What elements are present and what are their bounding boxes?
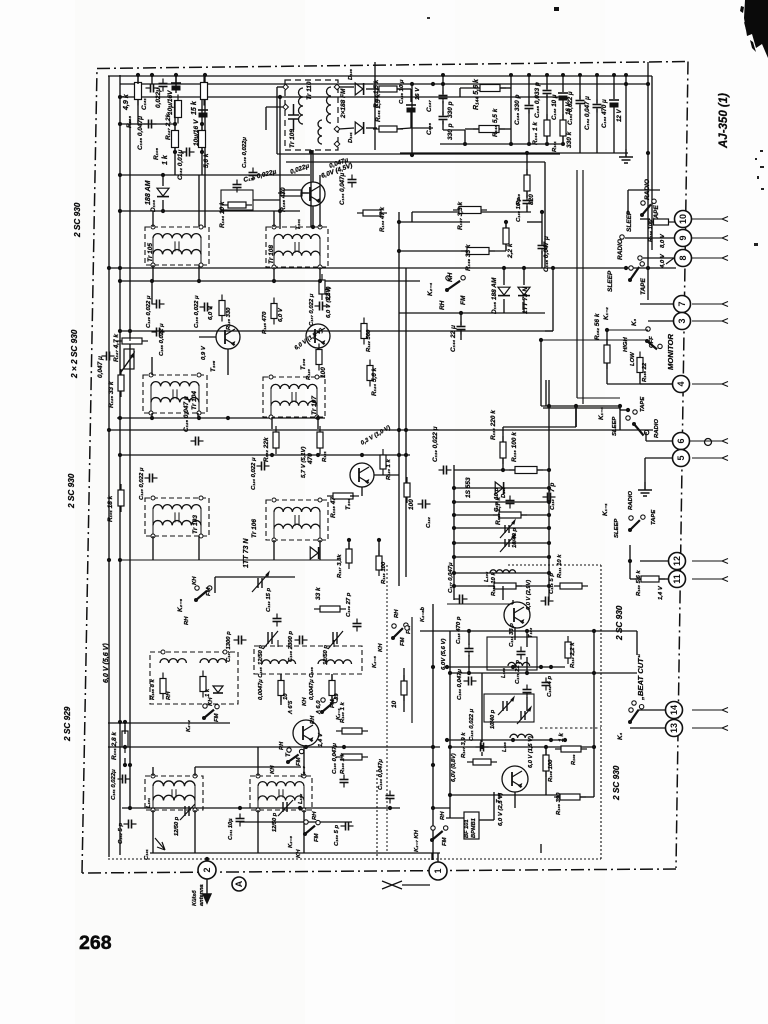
- wire: [648, 320, 673, 322]
- connector pin 6: [673, 433, 690, 450]
- wire: [443, 129, 465, 131]
- wire: [690, 440, 708, 442]
- wire: [124, 722, 126, 734]
- wire: [279, 97, 281, 229]
- junction: [509, 142, 513, 146]
- resistor R?33k: [314, 606, 346, 612]
- junction: [452, 555, 456, 559]
- resistor R124: [367, 360, 373, 387]
- wire: [510, 75, 512, 144]
- svg-text:R₁₄₉ 33 k: R₁₄₉ 33 k: [465, 244, 472, 271]
- junction: [226, 416, 230, 420]
- svg-text:C₁₄₆ 10 μ: C₁₄₆ 10 μ: [399, 79, 405, 104]
- wire: [575, 406, 577, 427]
- wire: [454, 514, 549, 516]
- svg-text:C₁₃₈ 330 p: C₁₃₈ 330 p: [514, 94, 521, 125]
- junction: [441, 82, 445, 86]
- capacitor C137: [315, 302, 328, 311]
- wire: [152, 265, 154, 281]
- resistor R112: [488, 583, 522, 589]
- svg-text:C₁₄₉ 10 p: C₁₄₉ 10 p: [516, 197, 522, 222]
- svg-text:R₁₁₁ 10 k: R₁₁₁ 10 k: [557, 554, 563, 578]
- resistor R103a: [336, 728, 368, 734]
- svg-text:13: 13: [669, 723, 679, 733]
- wire: [540, 340, 542, 380]
- svg-text:10: 10: [678, 214, 688, 224]
- capacitor C104: [386, 791, 395, 804]
- wire: [120, 559, 340, 561]
- svg-text:C₁₃₄ 0,047μ: C₁₃₄ 0,047μ: [339, 173, 346, 205]
- wire: [442, 101, 444, 115]
- wire: [410, 112, 412, 128]
- terminal tick: [722, 726, 728, 731]
- switch K2-3: [286, 748, 304, 764]
- wire: [420, 630, 637, 632]
- svg-text:2 SC 930: 2 SC 930: [73, 202, 82, 238]
- junction: [448, 745, 452, 749]
- connector pin 11: [669, 571, 686, 588]
- svg-text:0,022μ: 0,022μ: [155, 88, 162, 108]
- capacitor C162: [593, 100, 602, 113]
- wire: [257, 747, 259, 776]
- wire: [310, 150, 312, 227]
- wire: [137, 99, 139, 124]
- svg-text:L₁₀₁: L₁₀₁: [146, 798, 152, 808]
- junction: [646, 82, 650, 86]
- wire: [277, 86, 283, 88]
- resistor R113: [493, 512, 527, 518]
- svg-text:R₁₅₅ 8 k: R₁₅₅ 8 k: [150, 678, 156, 700]
- junction: [173, 150, 177, 154]
- junction: [397, 453, 401, 457]
- wire: [502, 458, 504, 470]
- svg-text:C₁₀₃ 0,047μ: C₁₀₃ 0,047μ: [332, 743, 338, 774]
- wire: [692, 237, 722, 239]
- junction: [452, 513, 456, 517]
- resistor R155: [160, 673, 166, 700]
- svg-text:11: 11: [672, 574, 682, 584]
- svg-text:TAPE: TAPE: [640, 278, 647, 295]
- svg-text:7: 7: [677, 301, 687, 306]
- wire: [647, 62, 649, 300]
- wire: [317, 348, 319, 350]
- svg-text:T₁₀₁: T₁₀₁: [295, 219, 302, 230]
- svg-text:188 AM: 188 AM: [144, 179, 152, 205]
- border frame top: [97, 62, 688, 69]
- terminal tick: [722, 217, 728, 222]
- junction: [431, 763, 435, 767]
- svg-text:5: 5: [676, 455, 686, 460]
- wire: [526, 697, 528, 711]
- svg-text:330 p: 330 p: [447, 101, 454, 118]
- switch K2-5: [391, 623, 408, 640]
- pin Tr110 d: [334, 126, 340, 132]
- wire: [437, 853, 439, 862]
- resistor Rten: [278, 675, 284, 702]
- svg-text:R₁₂₂ 560: R₁₂₂ 560: [366, 329, 372, 352]
- wire: [195, 766, 301, 768]
- junction: [624, 82, 628, 86]
- pcb outline bottom: [108, 858, 601, 860]
- junction: [161, 173, 165, 177]
- junction: [118, 173, 122, 177]
- wire: [399, 250, 467, 252]
- svg-text:12/50 p: 12/50 p: [258, 645, 264, 665]
- resistor R101b: [118, 484, 124, 512]
- wire: [108, 75, 652, 77]
- svg-text:268: 268: [79, 932, 112, 954]
- svg-text:K₂₋₇ KH: K₂₋₇ KH: [414, 829, 420, 852]
- svg-text:0,0047μ C₁₀₆: 0,0047μ C₁₀₆: [309, 666, 315, 700]
- svg-text:FM: FM: [214, 712, 220, 722]
- svg-text:Tr 107: Tr 107: [311, 396, 318, 415]
- capacitor C118: [541, 597, 554, 606]
- wire: [447, 739, 565, 741]
- wire: [361, 487, 363, 496]
- wire: [199, 336, 216, 338]
- resistor R122: [361, 318, 367, 345]
- junction: [197, 416, 201, 420]
- capacitor C136c: [439, 112, 448, 125]
- wire: [286, 161, 545, 163]
- connector pin 13: [666, 720, 683, 737]
- junction: [547, 486, 551, 490]
- svg-text:C₁₄₈ 10 μ: C₁₄₈ 10 μ: [551, 94, 558, 120]
- junction: [646, 151, 650, 155]
- wire: [405, 268, 407, 577]
- wire: [108, 746, 440, 748]
- svg-text:antenna: antenna: [199, 884, 205, 906]
- svg-text:R₁₁₀ 2,2 k: R₁₁₀ 2,2 k: [570, 642, 576, 668]
- capacitor C108: [295, 636, 308, 645]
- junction: [467, 671, 471, 675]
- wire: [528, 75, 530, 104]
- resistor R39: [329, 675, 335, 702]
- svg-text:10/40 p: 10/40 p: [490, 709, 496, 729]
- diode D102: [495, 482, 503, 494]
- capacitor C115: [465, 644, 474, 657]
- wire: [468, 655, 470, 673]
- svg-text:Λ 6,0: Λ 6,0: [316, 700, 322, 715]
- junction: [200, 150, 204, 154]
- wire: [403, 695, 405, 712]
- pcb outline segment: [508, 564, 601, 566]
- capacitor C145: [538, 241, 547, 254]
- svg-text:12: 12: [672, 556, 682, 566]
- wire: [454, 501, 549, 503]
- wire: [333, 640, 335, 647]
- junction: [595, 73, 599, 77]
- junction: [592, 629, 596, 633]
- switch K2-7: [430, 826, 448, 842]
- wire: [460, 87, 480, 89]
- terminal tick: [722, 456, 728, 461]
- svg-text:C₁₇₇ 0,047μ: C₁₇₇ 0,047μ: [448, 562, 454, 593]
- svg-text:C₁₃₇: C₁₃₇: [426, 100, 433, 112]
- junction: [563, 738, 567, 742]
- svg-text:R₁₁₇ 3,3k: R₁₁₇ 3,3k: [337, 554, 343, 578]
- wire: [468, 631, 470, 645]
- svg-text:8: 8: [678, 255, 688, 260]
- wire: [319, 267, 321, 281]
- wire: [198, 536, 200, 560]
- wire: [640, 218, 650, 220]
- resistor R128: [219, 295, 225, 322]
- resistor R151: [560, 114, 566, 142]
- wire: [151, 281, 153, 304]
- junction: [197, 279, 201, 283]
- resistor R115: [500, 436, 506, 464]
- svg-text:T₁₀₆: T₁₀₆: [300, 358, 307, 370]
- trimmer capacitor C1: [500, 520, 515, 538]
- transformer L102: [250, 774, 312, 812]
- wire: [339, 128, 354, 129]
- terminal tick: [722, 439, 728, 444]
- wire: [122, 330, 553, 332]
- resistor R147: [453, 207, 487, 214]
- wire: [152, 810, 154, 853]
- contact circle sleep: [620, 235, 624, 239]
- svg-text:T₁₀₅: T₁₀₅: [210, 360, 217, 372]
- svg-text:R₁₃₂ 22k: R₁₃₂ 22k: [263, 437, 270, 462]
- connector pin 10: [675, 211, 692, 228]
- svg-text:FM: FM: [442, 836, 448, 846]
- junction: [452, 500, 456, 504]
- svg-text:R₁₁₆ 100 k: R₁₁₆ 100 k: [511, 432, 518, 462]
- svg-text:C₁₁₁ 33 p: C₁₁₁ 33 p: [509, 623, 515, 647]
- svg-text:6,0 V (2,5 V): 6,0 V (2,5 V): [498, 793, 504, 826]
- diode D104: [518, 287, 530, 295]
- transistor T102: [502, 766, 528, 792]
- svg-text:R₁₁₂ 10 k: R₁₁₂ 10 k: [491, 572, 497, 596]
- capacitor Tr110 internal: [288, 104, 299, 130]
- wire: [447, 666, 565, 668]
- wire: [277, 153, 560, 155]
- wire: [411, 617, 413, 723]
- svg-text:FM: FM: [330, 698, 336, 708]
- wire: [582, 170, 584, 404]
- wire: [500, 87, 511, 89]
- transformer Tr110 shield box: [285, 80, 338, 150]
- junction: [509, 73, 513, 77]
- svg-text:MONITOR: MONITOR: [666, 334, 675, 370]
- wire: [596, 75, 598, 103]
- wire: [548, 406, 550, 600]
- junction: [107, 428, 111, 432]
- switch K4: [628, 705, 644, 725]
- wire: [503, 299, 505, 313]
- wire: [502, 427, 504, 442]
- wire: [446, 817, 464, 819]
- wire: [198, 265, 200, 281]
- resistor R140: [201, 77, 208, 106]
- junction: [467, 629, 471, 633]
- junction: [618, 404, 622, 408]
- svg-text:K₂₋₆: K₂₋₆: [177, 598, 184, 612]
- wire: [273, 211, 275, 227]
- svg-text:LOW: LOW: [630, 352, 636, 366]
- capacitor C129: [152, 300, 165, 309]
- junction: [448, 793, 452, 797]
- wire: [640, 383, 672, 385]
- junction: [318, 279, 322, 283]
- svg-text:6,0V (0,8V): 6,0V (0,8V): [451, 753, 457, 782]
- wire: [137, 75, 139, 84]
- svg-text:C₁₅₂ 5 p: C₁₅₂ 5 p: [118, 823, 124, 844]
- wire: [120, 96, 560, 98]
- junction: [545, 142, 549, 146]
- junction: [547, 500, 551, 504]
- wire: [129, 331, 131, 341]
- capacitor C107: [234, 636, 247, 645]
- wire: [646, 440, 672, 442]
- svg-text:K₁₋₁: K₁₋₁: [602, 503, 609, 516]
- svg-text:C₁₂₂: C₁₂₂: [426, 516, 432, 528]
- switch K2-8: [303, 820, 320, 836]
- resistor R111: [554, 583, 588, 589]
- junction: [525, 151, 529, 155]
- arrow antenna: [203, 879, 211, 903]
- wire: [312, 150, 314, 182]
- junction: [128, 763, 132, 767]
- svg-text:SLEEP: SLEEP: [614, 519, 620, 538]
- svg-text:L₁₀₅: L₁₀₅: [484, 571, 490, 582]
- junction: [624, 266, 628, 270]
- wire: [692, 578, 722, 580]
- junction: [522, 266, 526, 270]
- wire: [215, 576, 295, 578]
- junction: [278, 209, 282, 213]
- pin FM box b: [223, 650, 227, 654]
- junction: [272, 279, 276, 283]
- junction: [592, 671, 596, 675]
- svg-text:R₁₂₅ 470: R₁₂₅ 470: [262, 311, 268, 334]
- wire: [541, 251, 543, 268]
- wire: [545, 771, 547, 795]
- svg-text:R₁₀₉: R₁₀₉: [571, 754, 577, 765]
- junction: [561, 142, 565, 146]
- wire: [487, 637, 537, 670]
- diode D106: [355, 83, 363, 95]
- terminal tick: [722, 319, 728, 324]
- svg-text:100: 100: [320, 367, 327, 378]
- junction: [107, 558, 111, 562]
- switch K1-2a: [628, 262, 644, 282]
- resistor R132: [273, 426, 279, 454]
- wire: [526, 191, 528, 198]
- capacitor C?: [159, 79, 168, 92]
- wire: [398, 577, 400, 586]
- wire: [514, 627, 516, 640]
- wire: [108, 722, 230, 724]
- wire: [613, 106, 615, 153]
- svg-text:1 k: 1 k: [205, 688, 211, 697]
- junction: [200, 122, 204, 126]
- wire: [543, 407, 620, 409]
- svg-text:R₁₁₈ 47: R₁₁₈ 47: [330, 497, 337, 518]
- svg-text:C₁₂₉ 0,022 μ: C₁₂₉ 0,022 μ: [146, 295, 152, 328]
- potentiometer P1: [121, 349, 134, 372]
- junction: [624, 73, 628, 77]
- wire: [397, 88, 411, 90]
- junction: [540, 210, 544, 214]
- junction: [561, 73, 565, 77]
- wire: [201, 147, 203, 175]
- svg-text:C₁₁₉ 0,022 μ: C₁₁₉ 0,022 μ: [432, 426, 439, 462]
- terminal tick: [722, 236, 728, 241]
- connector pin 4: [673, 376, 690, 393]
- svg-text:KH: KH: [192, 576, 198, 585]
- svg-text:R₁₀₆: R₁₀₆: [153, 147, 160, 160]
- junction: [316, 416, 320, 420]
- svg-text:FM: FM: [314, 832, 320, 842]
- svg-text:RH: RH: [312, 811, 318, 820]
- transistor T106: [306, 324, 330, 348]
- wire: [319, 175, 321, 227]
- wire: [546, 95, 548, 120]
- wire: [607, 329, 648, 331]
- junction: [539, 665, 543, 669]
- capacitor C177: [455, 595, 468, 604]
- wire: [174, 147, 176, 175]
- trimmer capacitor 10/40p: [498, 697, 514, 715]
- resistor R142: [373, 86, 403, 92]
- svg-text:C₁₀₉ 27 p: C₁₀₉ 27 p: [346, 592, 352, 617]
- wire: [523, 268, 525, 285]
- svg-text:HIGH: HIGH: [623, 337, 629, 352]
- svg-text:4,9 k: 4,9 k: [122, 93, 130, 111]
- svg-text:OFF: OFF: [649, 336, 655, 348]
- junction: [431, 665, 435, 669]
- capacitor C137: [439, 91, 448, 104]
- svg-text:FM: FM: [206, 586, 212, 596]
- capacitor C155: [152, 328, 165, 337]
- svg-text:2 × 2 SC 930: 2 × 2 SC 930: [70, 329, 79, 379]
- wire: [440, 143, 564, 145]
- svg-text:330 k: 330 k: [566, 131, 573, 148]
- svg-text:C₁₀₄ 0,047μ: C₁₀₄ 0,047μ: [378, 759, 384, 790]
- svg-text:R₁₂₈ 330: R₁₂₈ 330: [226, 307, 232, 330]
- wire: [271, 417, 273, 429]
- terminal tick: [722, 302, 728, 307]
- wire: [240, 821, 352, 823]
- junction: [118, 453, 122, 457]
- wire: [648, 267, 676, 269]
- junction: [452, 571, 456, 575]
- resistor R119: [404, 477, 410, 503]
- wire: [253, 199, 280, 201]
- resistor R127b: [116, 338, 148, 344]
- wire: [625, 75, 627, 149]
- wire: [575, 406, 577, 427]
- wire: [638, 709, 665, 711]
- resistor R150: [503, 222, 509, 250]
- terminal tick: [722, 256, 728, 261]
- trimmer capacitor 12/50p a: [263, 631, 278, 649]
- switch K2-6: [194, 586, 212, 602]
- junction: [347, 538, 351, 542]
- wire: [403, 668, 405, 681]
- contact circle K2-8b: [405, 626, 409, 630]
- resistor R153: [635, 576, 665, 582]
- svg-text:4: 4: [676, 381, 686, 386]
- wire: [645, 432, 647, 441]
- wire: [302, 192, 311, 194]
- svg-text:1,4 V: 1,4 V: [318, 732, 324, 747]
- resistor R139: [199, 125, 206, 154]
- junction: [448, 671, 452, 675]
- svg-text:C₁₂₆ 0,047 μ: C₁₂₆ 0,047 μ: [183, 396, 190, 432]
